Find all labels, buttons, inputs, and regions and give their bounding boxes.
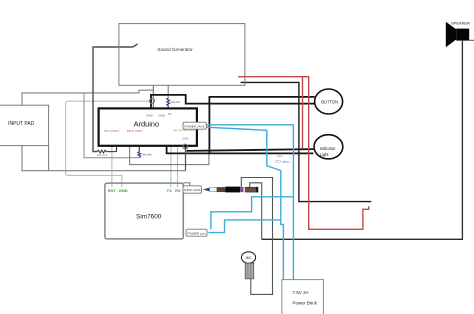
svg-text:GND: GND xyxy=(158,114,164,118)
svg-text:Light: Light xyxy=(320,152,330,157)
svg-text:Sim7600: Sim7600 xyxy=(136,214,162,221)
svg-text:GND: GND xyxy=(146,114,152,118)
svg-text:POWER JACK: POWER JACK xyxy=(184,124,205,128)
svg-text:100 ohm: 100 ohm xyxy=(171,101,181,104)
svg-text:INPUT PAD: INPUT PAD xyxy=(8,121,35,127)
svg-text:wire: wire xyxy=(277,154,283,158)
svg-text:GND: GND xyxy=(182,137,188,141)
svg-text:100 ohm: 100 ohm xyxy=(97,153,108,157)
svg-text:5V: 5V xyxy=(168,112,171,116)
svg-text:MIC: MIC xyxy=(246,256,253,260)
svg-text:45 ohm: 45 ohm xyxy=(143,152,153,156)
svg-text:AUDIO JACK: AUDIO JACK xyxy=(184,188,201,192)
svg-text:TX: TX xyxy=(167,188,172,193)
svg-text:POWER port: POWER port xyxy=(188,231,206,235)
svg-text:BUTTON: BUTTON xyxy=(321,100,338,105)
svg-text:RX: RX xyxy=(175,188,181,193)
svg-text:Power Brick: Power Brick xyxy=(292,300,317,305)
svg-text:Sound Generator: Sound Generator xyxy=(157,47,193,52)
svg-text:7.5V 2A: 7.5V 2A xyxy=(292,290,309,295)
svg-text:Indicator: Indicator xyxy=(320,146,336,151)
svg-text:| PIN 4: | PIN 4 xyxy=(111,129,120,133)
svg-text:GND: GND xyxy=(119,188,128,193)
svg-text:RST: RST xyxy=(108,188,117,193)
svg-text:777 ohm: 777 ohm xyxy=(275,160,290,164)
svg-text:Arduino: Arduino xyxy=(134,120,159,129)
svg-text:PIN 6 PIN 9: PIN 6 PIN 9 xyxy=(127,129,142,133)
svg-text:SPEAKER: SPEAKER xyxy=(451,20,470,25)
